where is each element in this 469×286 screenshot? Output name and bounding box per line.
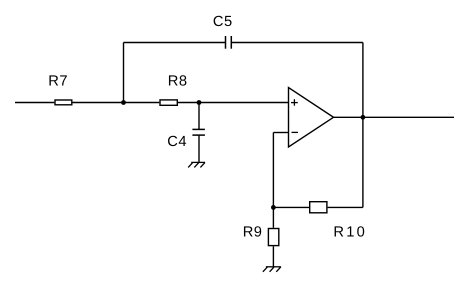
svg-text:R9: R9: [243, 225, 263, 241]
wire minus input down to node C: [272, 133, 274, 208]
wire right vertical feedback: [362, 43, 364, 208]
wire R9 to ground: [272, 246, 274, 266]
ground below R9: [263, 267, 281, 272]
wire node C to R10: [273, 206, 309, 208]
node C junction dot: [271, 205, 276, 210]
op-amp U1: [289, 88, 334, 148]
svg-text:C5: C5: [213, 14, 233, 30]
op-amp plus pin symbol: [291, 99, 298, 106]
wire C4 to ground: [198, 135, 200, 162]
wire R10 to right vertical: [328, 206, 363, 208]
wire R7 to node A: [73, 102, 124, 104]
wire minus input horizontal: [273, 132, 288, 134]
wire node B to op-amp plus input: [199, 102, 289, 104]
ground below C4: [188, 162, 205, 167]
svg-text:C4: C4: [167, 134, 187, 150]
resistor R9: [268, 229, 278, 246]
svg-text:R10: R10: [333, 225, 367, 241]
svg-text:R8: R8: [168, 74, 188, 90]
wire node B down to C4: [198, 103, 200, 130]
wire C5 to right vertical: [231, 42, 363, 44]
capacitor C4: [192, 129, 205, 135]
wire node C down to R9: [272, 207, 274, 227]
output node junction dot: [361, 115, 366, 120]
node B junction dot: [197, 100, 202, 105]
resistor R10: [310, 202, 327, 213]
wire node A up to feedback top: [123, 43, 125, 103]
capacitor C5: [226, 36, 232, 49]
node A junction dot: [121, 100, 126, 105]
resistor R7: [55, 100, 72, 105]
op-amp minus pin symbol: [292, 131, 299, 133]
wire top left to C5: [124, 42, 226, 44]
wire R8 to node B: [178, 102, 199, 104]
wire node A to R8: [124, 102, 160, 104]
svg-text:R7: R7: [48, 74, 68, 90]
wire op-amp output: [334, 116, 455, 118]
wire input left: [15, 102, 54, 104]
resistor R8: [160, 100, 177, 105]
